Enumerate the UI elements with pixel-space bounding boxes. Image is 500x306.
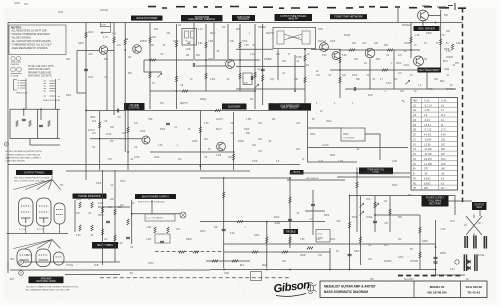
svg-text:6EU7: 6EU7 bbox=[216, 129, 222, 131]
svg-text:470K: 470K bbox=[134, 157, 140, 159]
svg-text:GRN: GRN bbox=[224, 273, 229, 275]
svg-text:50MF: 50MF bbox=[186, 239, 192, 241]
svg-text:47K: 47K bbox=[134, 123, 139, 125]
voltage table bbox=[411, 98, 458, 191]
wire dashed y251 bbox=[155, 251, 222, 253]
svg-text:REV. RECOVERY: REV. RECOVERY bbox=[419, 68, 440, 72]
wire socket SB drop bbox=[55, 98, 57, 110]
svg-text:POWER SUPPLY: POWER SUPPLY bbox=[426, 198, 445, 200]
resistor R62 bbox=[389, 209, 391, 215]
table tick bbox=[402, 100, 405, 102]
svg-text:2.2K: 2.2K bbox=[446, 51, 451, 53]
resistor R26 bbox=[451, 44, 453, 50]
wire signal bus y110 bbox=[86, 110, 311, 112]
wire vertical bus x86 bbox=[85, 23, 87, 181]
svg-text:47K: 47K bbox=[92, 133, 97, 135]
svg-text:CHOKE: CHOKE bbox=[410, 261, 419, 263]
svg-text:1.2 96: 1.2 96 bbox=[424, 144, 431, 146]
svg-text:DEPTH: DEPTH bbox=[180, 103, 188, 105]
svg-text:-1.6 84: -1.6 84 bbox=[424, 139, 432, 141]
svg-text:220K: 220K bbox=[330, 239, 336, 241]
resistor R31 bbox=[374, 202, 376, 208]
svg-text:IN34: IN34 bbox=[404, 65, 410, 67]
junction bbox=[435, 246, 437, 248]
junction left net 1 bbox=[23, 108, 25, 110]
junction bbox=[349, 269, 351, 271]
resistor R34 bbox=[289, 197, 291, 203]
resistor R16 bbox=[215, 109, 221, 111]
svg-text:BIAS POWER SUPPLY: BIAS POWER SUPPLY bbox=[142, 194, 169, 198]
wire speaker y270 bbox=[10, 269, 210, 271]
transistor Q3 amplitude bbox=[226, 60, 235, 69]
wire vertical x357 bbox=[356, 168, 358, 233]
svg-text:10K: 10K bbox=[434, 79, 439, 81]
junction bbox=[410, 49, 412, 51]
svg-text:6V: 6V bbox=[336, 251, 339, 253]
svg-text:250K: 250K bbox=[343, 134, 349, 136]
svg-text:470K: 470K bbox=[252, 161, 258, 163]
svg-text:450V: 450V bbox=[200, 231, 206, 233]
resistor R30 bbox=[356, 182, 358, 188]
svg-text:CdS: CdS bbox=[208, 59, 213, 61]
svg-text:6V: 6V bbox=[436, 43, 439, 45]
svg-text:1K: 1K bbox=[307, 54, 310, 56]
wire vertical x305 bbox=[304, 48, 306, 103]
label bar OUTPUT TUBE STAGES bbox=[275, 14, 313, 21]
svg-text:680K: 680K bbox=[324, 215, 330, 217]
wire top right drop bbox=[397, 8, 399, 23]
svg-text:RCA: RCA bbox=[443, 60, 448, 63]
svg-text:CONTROL: CONTROL bbox=[129, 108, 141, 110]
svg-text:PREAMP TUBES AND: PREAMP TUBES AND bbox=[28, 71, 52, 74]
svg-text:CONTROL: CONTROL bbox=[238, 19, 250, 21]
svg-text:SLO-BLO: SLO-BLO bbox=[404, 279, 414, 281]
svg-text:FUSE: FUSE bbox=[478, 255, 485, 257]
svg-text:RVB: RVB bbox=[318, 29, 323, 31]
svg-text:6.3AC: 6.3AC bbox=[424, 182, 431, 185]
input jack J1 bbox=[5, 142, 9, 146]
svg-text:500K: 500K bbox=[352, 217, 358, 219]
svg-text:RED: RED bbox=[262, 265, 267, 267]
junction bbox=[223, 177, 225, 179]
wire vertical x440 bbox=[440, 10, 442, 68]
footswitch box bbox=[101, 22, 111, 26]
wire y252 bbox=[224, 251, 330, 253]
svg-text:REV: REV bbox=[440, 81, 445, 83]
svg-text:VOL: VOL bbox=[366, 199, 371, 201]
capacitor C23 bbox=[39, 125, 43, 126]
svg-text:MATCHING XFMR: MATCHING XFMR bbox=[36, 280, 56, 283]
wire jack link bbox=[7, 262, 9, 273]
svg-text:2.2M: 2.2M bbox=[216, 155, 221, 157]
label bar PHASE INVERTER bbox=[73, 194, 107, 199]
svg-text:-11 340: -11 340 bbox=[424, 154, 432, 156]
resistor R39 bbox=[307, 247, 313, 249]
resistor R9 bbox=[205, 73, 207, 79]
svg-text:ALL CAPACITORS IN MFD UNLESS: ALL CAPACITORS IN MFD UNLESS bbox=[12, 40, 52, 43]
wire x455 drop bbox=[454, 196, 456, 216]
border left bbox=[7, 23, 9, 271]
wire loudness out bbox=[365, 134, 380, 160]
wire q8 to bar bbox=[422, 21, 424, 26]
potentiometer reverb depth bbox=[406, 80, 410, 84]
resistor R52 bbox=[193, 251, 199, 253]
junction bbox=[176, 90, 178, 92]
svg-text:47K: 47K bbox=[384, 245, 389, 247]
label bar POWER SUPPLY RECTIFIER bbox=[422, 195, 449, 207]
logo underline flourish bbox=[276, 294, 306, 297]
svg-text:1M: 1M bbox=[128, 57, 131, 59]
svg-text:ALL READINGS MADE WITH 117V AC: ALL READINGS MADE WITH 117V AC LINE bbox=[26, 288, 70, 291]
wire cap drop 2 bbox=[23, 109, 25, 116]
resistor R10 bbox=[239, 42, 241, 48]
wire reverb line y70 bbox=[330, 69, 420, 71]
wire vertical x349 bbox=[349, 196, 351, 271]
svg-text:470K: 470K bbox=[106, 134, 112, 136]
svg-text:.003: .003 bbox=[88, 54, 93, 56]
svg-text:.047: .047 bbox=[258, 151, 263, 153]
svg-text:2K: 2K bbox=[316, 71, 319, 73]
svg-text:INPUT CIRCUIT: INPUT CIRCUIT bbox=[281, 108, 298, 110]
svg-text:1M: 1M bbox=[384, 201, 387, 203]
svg-text:6.8K: 6.8K bbox=[198, 43, 203, 45]
svg-text:NO 16706 ON: NO 16706 ON bbox=[427, 290, 446, 294]
junction bbox=[435, 269, 437, 271]
svg-text:10K: 10K bbox=[318, 255, 323, 257]
svg-text:4.4 9.6: 4.4 9.6 bbox=[424, 135, 432, 137]
svg-text:1.5M: 1.5M bbox=[208, 41, 213, 43]
svg-text:PAD: PAD bbox=[428, 88, 433, 91]
wire reverb send bbox=[236, 48, 273, 50]
svg-text:PRA-104: PRA-104 bbox=[11, 63, 21, 66]
transistor Q8 bbox=[418, 10, 429, 21]
svg-text:100K: 100K bbox=[76, 199, 82, 201]
svg-text:5.6K: 5.6K bbox=[342, 55, 347, 57]
wire vertical x102 bbox=[102, 170, 104, 265]
label bar AMPLITUDE CONTROL bbox=[232, 15, 255, 21]
label bar OUTPUT JACK bbox=[472, 202, 487, 210]
svg-text:6BQ5 PP: 6BQ5 PP bbox=[288, 19, 298, 21]
wire vertical x228 bbox=[227, 24, 229, 59]
svg-text:IN295: IN295 bbox=[344, 35, 351, 37]
svg-text:ELECTRONIC TREMOLO: ELECTRONIC TREMOLO bbox=[188, 19, 215, 21]
svg-text:1M: 1M bbox=[125, 39, 128, 41]
svg-text:5.6K: 5.6K bbox=[76, 235, 81, 237]
svg-text:REF: REF bbox=[413, 101, 418, 103]
junction bbox=[124, 49, 126, 51]
label bar OUTPUT TRANS bbox=[16, 170, 53, 175]
svg-text:PAD: PAD bbox=[368, 94, 373, 97]
border right dashed bbox=[462, 8, 464, 205]
reverb unit box bbox=[273, 28, 316, 49]
wire vertical bus x114 bbox=[113, 23, 115, 116]
wire loudness to tone bbox=[308, 140, 357, 162]
speaker jack J4 bbox=[19, 271, 24, 276]
svg-text:2M: 2M bbox=[186, 55, 189, 57]
wire speaker y274 bbox=[65, 274, 120, 276]
capacitor C20 filter bbox=[434, 257, 438, 258]
rectifier bridge bbox=[466, 215, 482, 237]
svg-text:B-: B- bbox=[413, 174, 416, 176]
svg-text:-11 340: -11 340 bbox=[424, 149, 432, 151]
svg-text:.047: .047 bbox=[296, 123, 301, 125]
svg-text:BAL: BAL bbox=[408, 194, 413, 197]
resistor R8 bbox=[205, 42, 207, 48]
wire tube drops bbox=[26, 224, 60, 234]
svg-text:100K: 100K bbox=[192, 141, 198, 143]
svg-text:8Ω: 8Ω bbox=[306, 65, 309, 67]
wire y178 bbox=[200, 177, 290, 179]
capacitor C1 bbox=[166, 123, 170, 124]
svg-text:2.7K: 2.7K bbox=[440, 35, 445, 37]
svg-text:2.2K: 2.2K bbox=[118, 243, 123, 245]
svg-text:IN: IN bbox=[302, 159, 305, 161]
socket diagram SB bbox=[44, 79, 60, 98]
wire net out bbox=[30, 139, 60, 146]
wire y207 link bbox=[98, 206, 130, 208]
potentiometer TONE bbox=[360, 211, 364, 215]
svg-text:117V: 117V bbox=[450, 221, 456, 223]
resistor R37 bbox=[266, 237, 268, 243]
resistor R53 bbox=[212, 260, 218, 262]
svg-text:.047: .047 bbox=[362, 43, 367, 45]
wire bus y195 bbox=[350, 195, 455, 197]
wire midrange y180 bbox=[287, 179, 345, 181]
label bar REV DRIVER bbox=[414, 26, 440, 31]
wire vertical x255 bbox=[254, 24, 256, 109]
resistor R11 bbox=[239, 73, 241, 79]
wire left net center leg bbox=[37, 109, 39, 138]
wire vertical x128 mid bbox=[127, 111, 129, 170]
svg-text:2A: 2A bbox=[466, 278, 469, 281]
wire heavy dashed y275 bbox=[398, 275, 462, 277]
svg-text:10K: 10K bbox=[152, 37, 157, 39]
svg-text:330K: 330K bbox=[354, 251, 360, 253]
wire vertical x206 bbox=[205, 24, 207, 91]
svg-text:AGES MEASURED TO CHASSIS.: AGES MEASURED TO CHASSIS. bbox=[12, 47, 49, 50]
junction x295 bbox=[294, 90, 296, 92]
scan streak top bbox=[148, 7, 466, 9]
svg-text:1500: 1500 bbox=[140, 131, 146, 133]
svg-text:R22: R22 bbox=[154, 29, 159, 31]
svg-text:PRA-104 PC: PRA-104 PC bbox=[16, 92, 28, 95]
svg-text:.5M: .5M bbox=[166, 33, 170, 35]
note text right of symbols bbox=[28, 66, 54, 78]
junction bbox=[127, 151, 129, 153]
tube V6 envelope bbox=[17, 249, 32, 267]
transistor Q9 bbox=[217, 142, 226, 151]
treble circuit box bbox=[316, 230, 330, 243]
svg-text:6X4: 6X4 bbox=[92, 121, 97, 123]
svg-text:500K: 500K bbox=[274, 217, 280, 219]
label bar TONE TRAP NETWORK bbox=[330, 14, 367, 19]
resistor R21 bbox=[349, 49, 355, 51]
voltage box bbox=[145, 214, 175, 221]
capacitor C3 bbox=[193, 63, 194, 67]
wire mid y138 bbox=[90, 138, 142, 140]
svg-text:-3.4 6: -3.4 6 bbox=[424, 120, 431, 122]
svg-text:33K: 33K bbox=[228, 157, 233, 159]
junction pilot bbox=[131, 213, 133, 215]
svg-text:10K: 10K bbox=[258, 139, 263, 141]
wire tremolo bus y91 bbox=[150, 90, 255, 92]
wire tremolo jog bbox=[144, 60, 162, 72]
junction bbox=[254, 90, 256, 92]
label bar BLENDER bbox=[222, 104, 247, 110]
svg-text:.047: .047 bbox=[384, 223, 389, 225]
resistor R19 bbox=[339, 57, 341, 63]
svg-text:11.2: 11.2 bbox=[441, 115, 446, 117]
bottom tubes caption bbox=[26, 286, 78, 291]
svg-text:2.2M: 2.2M bbox=[210, 79, 215, 81]
svg-text:OUT: OUT bbox=[26, 255, 31, 257]
wire jack drop bbox=[479, 210, 481, 216]
svg-text:24.5: 24.5 bbox=[441, 159, 446, 161]
svg-text:4.5K: 4.5K bbox=[112, 33, 117, 35]
junction bbox=[266, 221, 268, 223]
svg-text:500K: 500K bbox=[318, 234, 323, 236]
capacitor C4 bbox=[251, 76, 252, 80]
tube V3 6EU7 envelope bbox=[19, 198, 34, 226]
label bar REV RECOVERY bbox=[418, 68, 442, 73]
transistor Q1 bbox=[99, 46, 108, 55]
wire vertical x150 bbox=[149, 23, 151, 110]
transistor Q5 bbox=[332, 52, 340, 60]
wire vertical bus x125 bbox=[124, 23, 126, 153]
wire reverb line y50 bbox=[340, 49, 420, 51]
wire vertical x176 bbox=[176, 24, 178, 109]
svg-text:BLK: BLK bbox=[240, 265, 245, 267]
notes text bbox=[12, 29, 53, 50]
svg-text:25MF: 25MF bbox=[426, 33, 432, 35]
svg-text:2N508: 2N508 bbox=[140, 41, 147, 43]
wire left net top bbox=[10, 108, 60, 110]
svg-text:1M: 1M bbox=[250, 99, 253, 101]
left note text bbox=[6, 150, 42, 162]
transistor Q10 bbox=[142, 136, 150, 144]
resistor R65 bbox=[99, 122, 101, 128]
wire vertical x411 bbox=[410, 23, 412, 59]
junction bbox=[289, 177, 291, 179]
title block separators bbox=[414, 281, 461, 298]
svg-text:270K: 270K bbox=[88, 77, 94, 79]
svg-text:PRI. 8000 OHMS PLATE TO PLATE: PRI. 8000 OHMS PLATE TO PLATE bbox=[14, 176, 50, 179]
svg-text:4.7K: 4.7K bbox=[198, 29, 203, 31]
svg-text:.005: .005 bbox=[336, 221, 341, 223]
wire vertical x99 mid bbox=[99, 111, 101, 170]
resistor R36 bbox=[223, 192, 225, 198]
svg-text:UNLESS OTHERWISE SPECIFIED: UNLESS OTHERWISE SPECIFIED bbox=[12, 33, 50, 36]
svg-text:FREQ: FREQ bbox=[200, 99, 207, 101]
capacitor C7 bbox=[84, 69, 88, 70]
svg-text:+325: +325 bbox=[146, 239, 152, 241]
wire y261 bbox=[206, 260, 250, 262]
junction bbox=[200, 165, 202, 167]
output transformer caption bbox=[14, 176, 50, 182]
svg-text:MATCHING SOCKETS: MATCHING SOCKETS bbox=[28, 75, 52, 78]
junction bbox=[349, 195, 351, 197]
svg-text:PHASE INVERTER: PHASE INVERTER bbox=[78, 194, 101, 198]
wire B7 drop bbox=[426, 73, 428, 90]
wire vertical x266 bbox=[266, 222, 268, 268]
junction bbox=[239, 59, 241, 61]
svg-text:PRA-104 SOCKET: PRA-104 SOCKET bbox=[43, 99, 61, 102]
tube V5 envelope small bbox=[54, 203, 65, 224]
svg-text:1.5K: 1.5K bbox=[244, 45, 249, 47]
wire speaker y262 bbox=[23, 261, 120, 263]
svg-text:5H: 5H bbox=[410, 249, 413, 251]
svg-text:1.1 168: 1.1 168 bbox=[424, 164, 432, 166]
svg-text:SCH 400-IN: SCH 400-IN bbox=[466, 285, 482, 289]
wire y215 bbox=[375, 214, 420, 216]
svg-text:5%: 5% bbox=[60, 185, 63, 187]
svg-text:8.2K: 8.2K bbox=[230, 233, 235, 235]
svg-text:SPEED: SPEED bbox=[258, 27, 266, 29]
wire bottom bus y269 bbox=[210, 269, 436, 271]
power transformer T1 secondary bbox=[474, 236, 476, 249]
svg-text:SOCKET CONNECTIONS VIEWED FROM: SOCKET CONNECTIONS VIEWED FROM BOTTOM bbox=[26, 286, 78, 288]
svg-text:56K: 56K bbox=[196, 55, 201, 57]
svg-text:10K: 10K bbox=[276, 54, 281, 56]
wire y128 to loudness bbox=[308, 127, 341, 129]
svg-text:12K: 12K bbox=[374, 43, 379, 45]
svg-text:6.8K: 6.8K bbox=[456, 43, 461, 45]
potentiometer depth trim bbox=[255, 84, 259, 88]
transformer T1 lower windings bbox=[464, 254, 477, 271]
junction bbox=[339, 49, 341, 51]
svg-text:1500: 1500 bbox=[96, 183, 102, 185]
svg-text:WAVE ROUNDER: WAVE ROUNDER bbox=[136, 16, 157, 20]
resistor R15 bbox=[182, 90, 188, 92]
svg-text:8Ω: 8Ω bbox=[130, 273, 133, 275]
potentiometer BASS pot bbox=[375, 203, 379, 207]
svg-text:DEPTH: DEPTH bbox=[266, 33, 274, 35]
svg-text:68K: 68K bbox=[246, 133, 251, 135]
wire vertical x330 bbox=[329, 248, 331, 270]
power transformer T1 primary bbox=[465, 236, 467, 248]
svg-text:FULL WAVE: FULL WAVE bbox=[429, 200, 442, 203]
wire cathode bus y233 bbox=[7, 233, 69, 235]
svg-text:NOTE: USE ONLY WITH: NOTE: USE ONLY WITH bbox=[28, 66, 54, 68]
junction bbox=[289, 269, 291, 271]
svg-text:68K: 68K bbox=[384, 45, 389, 47]
svg-text:-1.15: -1.15 bbox=[424, 110, 430, 112]
resistor R61 bbox=[419, 252, 421, 258]
svg-text:1K: 1K bbox=[88, 199, 91, 201]
tube V8 envelope small bbox=[54, 252, 65, 265]
tube base symbol V1 bbox=[11, 56, 22, 66]
resistor R49 bbox=[154, 227, 156, 233]
wire cap drop bbox=[40, 109, 42, 120]
wire vertical x200 mid bbox=[199, 111, 201, 170]
svg-text:NE-2: NE-2 bbox=[210, 33, 216, 35]
label bar LOW IMPEDANCE INPUT bbox=[269, 103, 312, 110]
resistor R44 bbox=[102, 207, 104, 213]
pilot lamp bbox=[180, 212, 186, 218]
svg-text:17.5: 17.5 bbox=[441, 130, 446, 132]
wire vertical x307 bbox=[307, 111, 309, 141]
wire vertical x340 bbox=[339, 50, 341, 98]
junction left net 2 bbox=[40, 108, 42, 110]
label bar VOLUME CONTROL bbox=[124, 103, 145, 110]
resistor R67 bbox=[199, 127, 201, 133]
svg-text:RECTIFIER: RECTIFIER bbox=[429, 203, 441, 205]
svg-text:1K: 1K bbox=[404, 51, 407, 53]
wire x131 drop bbox=[131, 200, 133, 244]
potentiometer VOL bbox=[360, 203, 364, 207]
resistor R23 bbox=[382, 69, 388, 71]
svg-text:5600: 5600 bbox=[330, 155, 336, 157]
